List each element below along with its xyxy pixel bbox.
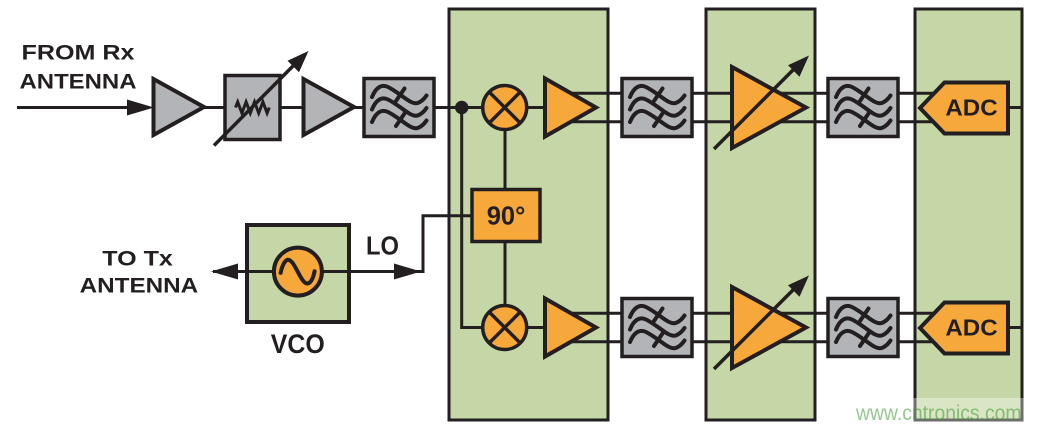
svg-text:ADC: ADC [945, 315, 997, 341]
svg-text:TO Tx: TO Tx [102, 247, 173, 271]
watermark band [843, 398, 1041, 424]
ADC2 [920, 303, 1008, 354]
resistor zigzag in attenuator [236, 102, 270, 113]
amplifier LNA (gray) [154, 79, 205, 135]
svg-text:VCO: VCO [271, 329, 325, 359]
wire: amp2 to filter1 [353, 106, 365, 109]
arrowhead into LNA [127, 100, 154, 116]
VGA1 (variable gain amplifier) [714, 56, 809, 150]
wire: ADC1 output [1006, 106, 1021, 109]
wire: amp3 differential out to filter2 through VGA1 to filter4 [560, 92, 946, 95]
VGA2 (variable gain amplifier) [714, 276, 809, 370]
amplifier A4 (orange) [545, 299, 596, 357]
svg-text:ANTENNA: ANTENNA [20, 70, 137, 94]
wire: 90deg splitter to mixer2 [504, 241, 507, 307]
variable attenuator [225, 76, 280, 140]
filter F1 [364, 79, 434, 137]
green block: mixer/demodulator stage [449, 9, 608, 420]
wire: attenuator to amp2 [268, 106, 304, 109]
wire: mixer2 to amp4 [525, 326, 546, 329]
green block: ADC stage [915, 9, 1022, 420]
ADC1 [920, 83, 1008, 134]
svg-text:ADC: ADC [945, 95, 997, 121]
wire: I-branch vertical from junction [462, 108, 484, 328]
green block: variable gain amplifier stage [706, 9, 815, 420]
arrowhead LO [394, 264, 421, 280]
mixer M2 [483, 306, 527, 350]
amplifier A2 (gray) [304, 79, 355, 135]
svg-text:LO: LO [366, 231, 399, 261]
filter F5 [828, 299, 898, 357]
wire: VCO LO output [349, 216, 473, 272]
svg-text:ANTENNA: ANTENNA [80, 274, 199, 298]
svg-text:www.cntronics.com: www.cntronics.com [855, 402, 1021, 425]
mixer M1 [483, 86, 527, 130]
wire: LNA to attenuator to amp2 [204, 106, 237, 109]
wire: TO Tx antenna from VCO [213, 270, 248, 273]
filter F2 [622, 79, 692, 137]
90 degree phase splitter [472, 190, 540, 242]
wire: mixer1 to amp3 [525, 106, 546, 109]
wire: ADC2 output [1006, 326, 1021, 329]
svg-text:90°: 90° [487, 203, 526, 231]
attenuator variability arrow [214, 63, 296, 146]
junction node [455, 101, 468, 114]
filter F3 [622, 299, 692, 357]
amplifier A3 (orange) [545, 79, 596, 137]
wire: amp4 differential out to filter3 through VGA2 to filter5 [560, 312, 946, 315]
wire: filter1 to mixer1 [433, 106, 484, 109]
wire: mixer1 to 90deg splitter [504, 128, 507, 191]
wire: antenna input [17, 106, 140, 109]
filter F4 [828, 79, 898, 137]
VCO block [247, 225, 349, 322]
svg-text:FROM Rx: FROM Rx [22, 41, 135, 65]
arrowhead TO Tx [211, 264, 238, 280]
